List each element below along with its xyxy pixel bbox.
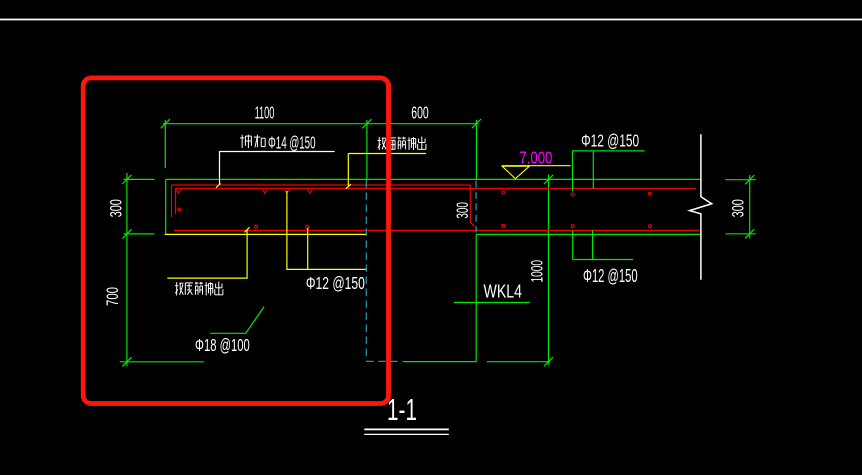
label WKL4 bbox=[484, 281, 523, 301]
svg-text:1100: 1100 bbox=[255, 103, 275, 123]
dim label 600 bbox=[411, 103, 428, 123]
right dimension line 300 bbox=[725, 175, 756, 238]
left dimension line 300/700 bbox=[120, 173, 204, 366]
dim label 300 right (rotated) bbox=[729, 199, 748, 217]
break line (white zigzag) bbox=[690, 134, 712, 280]
stirrup v-marks (red) bbox=[176, 190, 312, 193]
WKL4 label underline bbox=[454, 302, 530, 304]
slab outline green bbox=[166, 179, 701, 234]
svg-text:300: 300 bbox=[107, 199, 126, 217]
svg-text:Φ12 @150: Φ12 @150 bbox=[581, 130, 639, 150]
svg-text:1-1: 1-1 bbox=[387, 393, 417, 427]
label 板面筋伸出 bbox=[378, 137, 426, 151]
dim label 1000 (rotated) bbox=[528, 260, 547, 283]
label 300 of bar leg (rotated white) bbox=[454, 202, 472, 219]
extra top bar 附加Φ14@150 (red, hooks both ends) bbox=[172, 185, 475, 226]
svg-text:700: 700 bbox=[103, 287, 122, 306]
dim label 1100 bbox=[255, 103, 275, 123]
leader Φ12@150 top-right (green) bbox=[572, 151, 645, 191]
dim label 700 (rotated) bbox=[103, 287, 122, 306]
section cut dashed line (cyan) bbox=[366, 181, 403, 362]
dim label 300 left (rotated) bbox=[107, 199, 126, 217]
label Φ12@150 top-right bbox=[581, 130, 639, 150]
slab bottom bar yellow bbox=[165, 233, 367, 235]
title underline double bbox=[364, 429, 449, 434]
svg-text:Φ14 @150: Φ14 @150 bbox=[268, 132, 316, 152]
top border line bbox=[0, 19, 862, 21]
leader Φ12@150 bottom-left (yellow) bbox=[286, 191, 367, 270]
leader 板底筋伸出 (yellow) bbox=[167, 227, 249, 278]
svg-text:1000: 1000 bbox=[528, 260, 547, 283]
leader arrow tick of 附加 bar (yellow) bbox=[216, 183, 221, 187]
leader 板面筋伸出 (yellow) bbox=[346, 154, 426, 189]
leader 附加Φ14@150 (white) bbox=[219, 152, 335, 185]
dimension line top 1100/600 bbox=[161, 119, 481, 180]
svg-text:7.000: 7.000 bbox=[519, 147, 552, 167]
hidden edge dashed (cyan) right bbox=[475, 181, 477, 233]
dimension line 1000 vertical bbox=[487, 175, 553, 367]
red highlight box bbox=[83, 78, 388, 404]
svg-text:300: 300 bbox=[729, 199, 748, 217]
elevation symbol 7.000 (yellow) bbox=[502, 166, 571, 179]
label 板底筋伸出 bbox=[175, 282, 223, 296]
slab top rebar (red) bbox=[176, 188, 697, 214]
leader Φ12@150 bottom-right (green) bbox=[573, 230, 633, 259]
slab bottom rebar (red) bbox=[174, 229, 700, 231]
label Φ12@150 bottom-left bbox=[306, 273, 365, 293]
label Φ18@100 bbox=[195, 335, 250, 355]
label 7.000 (magenta) bbox=[519, 147, 552, 167]
svg-text:Φ12 @150: Φ12 @150 bbox=[306, 273, 365, 293]
label 附加Φ14 @150 bbox=[240, 132, 316, 152]
svg-text:WKL4: WKL4 bbox=[484, 281, 523, 301]
leader Φ18@100 (green) bbox=[210, 307, 264, 334]
bar section circles (red) bbox=[178, 191, 652, 229]
title 1-1 bbox=[387, 393, 417, 427]
label Φ12@150 bottom-right bbox=[583, 266, 638, 286]
svg-text:Φ12 @150: Φ12 @150 bbox=[583, 266, 638, 286]
svg-text:600: 600 bbox=[411, 103, 428, 123]
beam WKL4 outline bbox=[404, 234, 477, 361]
svg-text:Φ18 @100: Φ18 @100 bbox=[195, 335, 250, 355]
svg-text:300: 300 bbox=[454, 202, 472, 219]
